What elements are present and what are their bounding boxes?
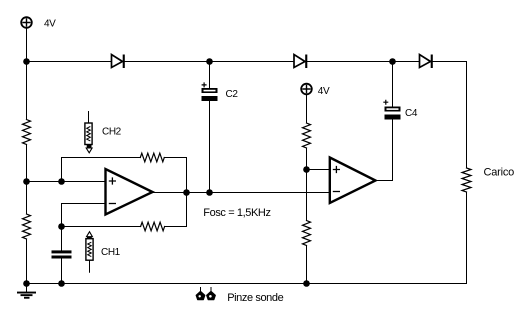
svg-text:4V: 4V [44,19,56,30]
svg-text:CH2: CH2 [102,127,122,138]
svg-text:CH1: CH1 [101,247,121,258]
svg-text:C2: C2 [226,89,239,100]
svg-text:Carico: Carico [484,167,515,179]
svg-text:4V: 4V [318,86,330,97]
svg-text:Fosc = 1,5KHz: Fosc = 1,5KHz [203,207,270,219]
svg-text:C4: C4 [405,108,418,119]
svg-text:Pinze sonde: Pinze sonde [227,292,283,304]
